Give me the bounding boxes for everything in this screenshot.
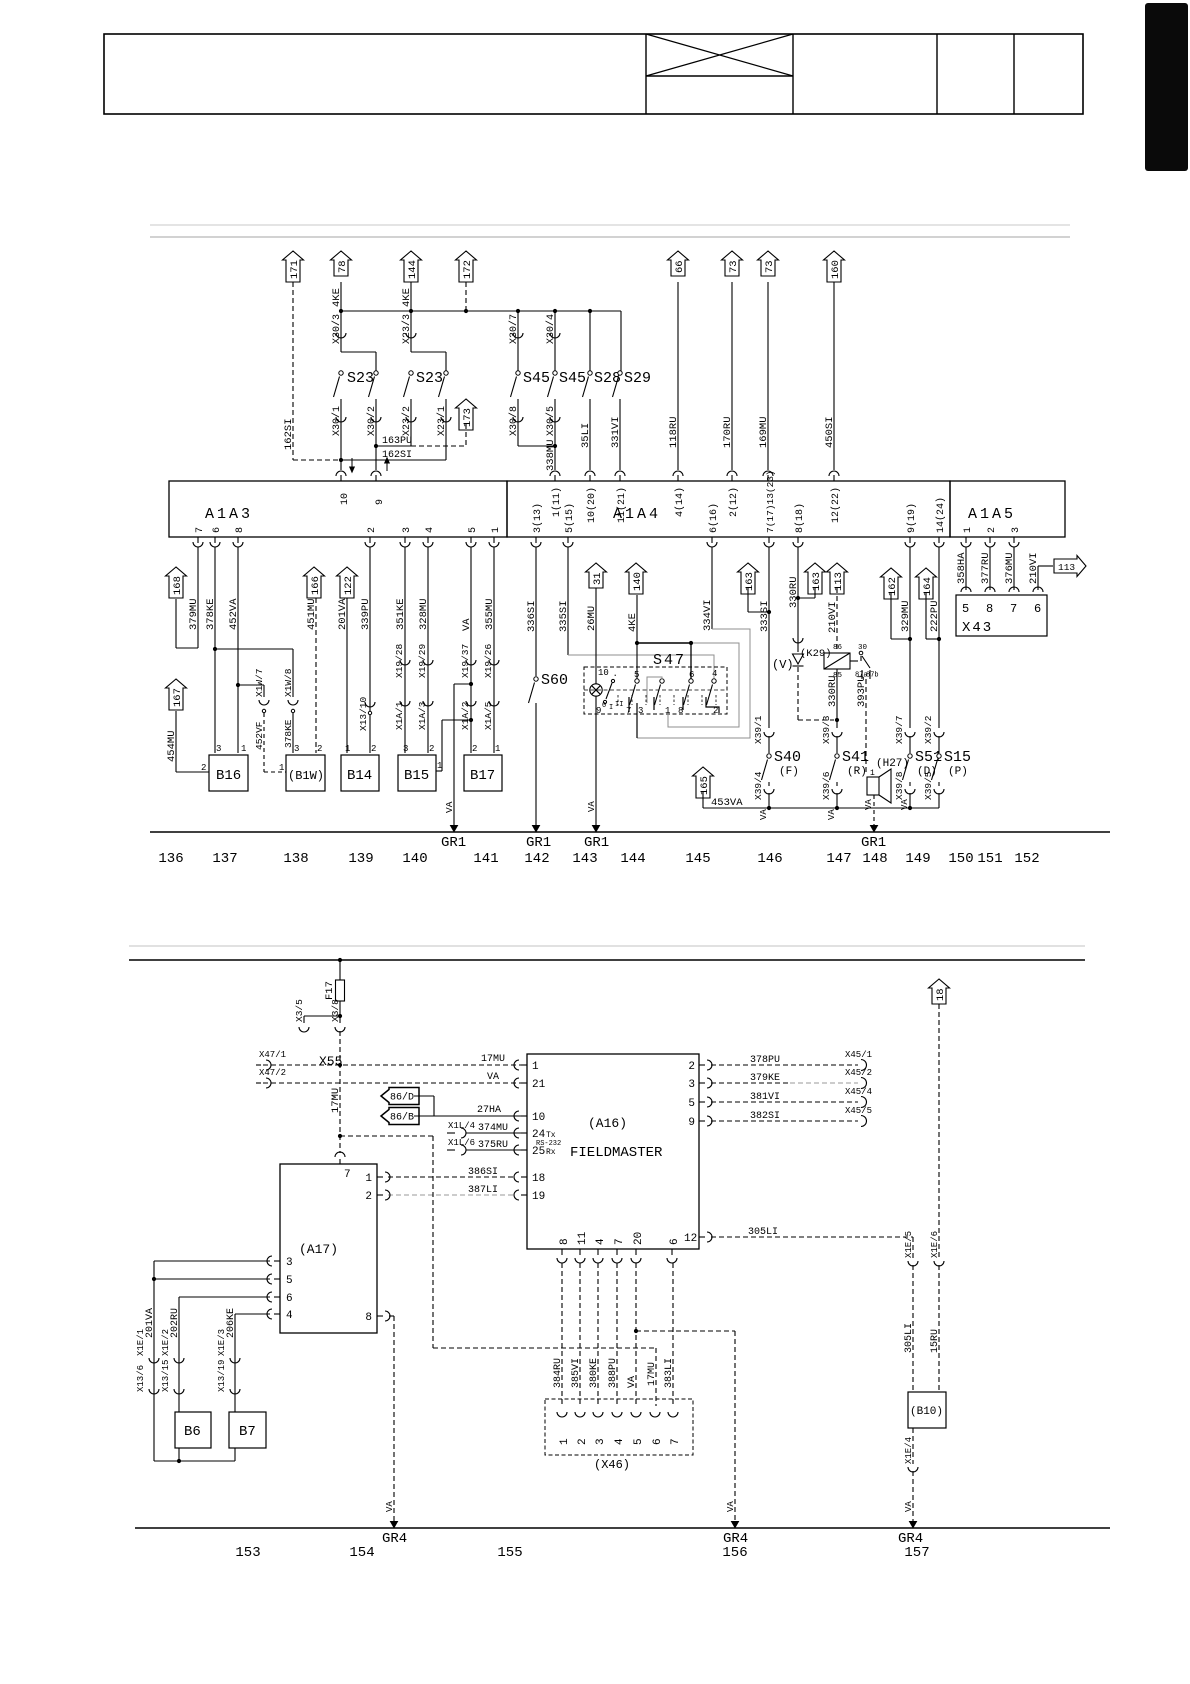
svg-text:10: 10 xyxy=(598,668,609,678)
svg-text:171: 171 xyxy=(289,260,301,279)
A1A3 pin 3 xyxy=(404,537,406,543)
svg-text:27HA: 27HA xyxy=(477,1105,501,1116)
svg-text:X19/29: X19/29 xyxy=(417,643,428,678)
svg-text:7: 7 xyxy=(614,1238,626,1245)
svg-text:II: II xyxy=(615,701,623,709)
wire 334VI routing xyxy=(711,547,713,629)
svg-text:3: 3 xyxy=(402,527,413,533)
svg-text:152: 152 xyxy=(1014,851,1039,867)
svg-text:1(11): 1(11) xyxy=(551,487,563,517)
wire X1E/6 column xyxy=(938,1004,940,1258)
svg-text:157: 157 xyxy=(904,1545,929,1561)
switch S28 xyxy=(588,371,592,375)
svg-text:1: 1 xyxy=(491,527,502,533)
A1A5 pin 2 xyxy=(989,537,991,543)
svg-text:GR1: GR1 xyxy=(584,835,609,851)
svg-text:351KE: 351KE xyxy=(395,598,407,630)
svg-text:379KE: 379KE xyxy=(750,1073,780,1084)
svg-text:169MU: 169MU xyxy=(758,416,770,448)
svg-text:GR4: GR4 xyxy=(382,1531,407,1547)
ECU (A16) FIELDMASTER xyxy=(527,1054,699,1249)
sensor B7 xyxy=(229,1412,266,1448)
svg-text:167: 167 xyxy=(172,688,184,707)
svg-text:X1E/6: X1E/6 xyxy=(930,1231,940,1258)
svg-text:X19/26: X19/26 xyxy=(483,643,494,678)
sensor B16 xyxy=(209,755,248,791)
svg-text:11: 11 xyxy=(577,1231,589,1245)
connector X30/1 xyxy=(340,399,342,460)
svg-text:VA: VA xyxy=(726,1501,736,1512)
svg-text:305LI: 305LI xyxy=(748,1227,778,1238)
svg-text:86/B: 86/B xyxy=(390,1112,414,1124)
svg-text:X23/1: X23/1 xyxy=(436,406,448,436)
svg-text:I: I xyxy=(609,704,613,712)
A1A3 pin 7 xyxy=(197,537,199,543)
svg-text:X39/4: X39/4 xyxy=(753,771,764,800)
svg-text:151: 151 xyxy=(977,851,1002,867)
svg-text:336SI: 336SI xyxy=(526,600,538,632)
switch S45 #2 xyxy=(553,371,557,375)
svg-text:452VA: 452VA xyxy=(228,598,240,630)
wire 351KE xyxy=(404,547,406,753)
section 1 ground bus xyxy=(150,831,1110,833)
flag 31 xyxy=(586,563,607,588)
svg-text:S41: S41 xyxy=(842,749,869,766)
svg-text:X23/3: X23/3 xyxy=(401,314,413,344)
svg-text:A1A3: A1A3 xyxy=(205,506,253,523)
svg-text:166: 166 xyxy=(310,576,322,595)
wire X1E/5 column 305LI xyxy=(912,1237,914,1258)
svg-text:X1A/1: X1A/1 xyxy=(394,701,405,730)
A1A3 pin 10 xyxy=(340,475,342,481)
svg-text:4KE: 4KE xyxy=(627,613,639,632)
svg-text:X1W/7: X1W/7 xyxy=(254,668,265,697)
ground GR4 #2 xyxy=(732,1522,739,1528)
connector X30/7 xyxy=(517,311,519,371)
svg-text:X30/4: X30/4 xyxy=(545,314,557,344)
svg-text:X39/2: X39/2 xyxy=(923,715,934,744)
flag 166 xyxy=(304,567,325,598)
wire 378KE lower xyxy=(292,713,294,753)
svg-text:9(19): 9(19) xyxy=(906,503,918,533)
S47 gray routing xyxy=(668,643,739,727)
svg-text:1: 1 xyxy=(365,1173,372,1185)
wire 4KE right xyxy=(410,282,412,311)
sensor (B1W) xyxy=(286,755,325,791)
A1A3 pin 6 xyxy=(214,537,216,543)
svg-text:X19/37: X19/37 xyxy=(460,644,471,678)
svg-text:452VF: 452VF xyxy=(254,721,265,750)
svg-text:X45/1: X45/1 xyxy=(845,1050,872,1060)
connector X19/26 xyxy=(489,660,499,665)
switch S29 xyxy=(618,371,622,375)
svg-text:450SI: 450SI xyxy=(824,416,836,448)
svg-text:160: 160 xyxy=(830,260,842,279)
svg-text:331VI: 331VI xyxy=(610,416,622,448)
svg-text:1: 1 xyxy=(279,763,284,773)
svg-text:8(18): 8(18) xyxy=(794,503,806,533)
svg-text:378KE: 378KE xyxy=(205,598,217,630)
svg-text:1: 1 xyxy=(532,1061,539,1073)
svg-text:386SI: 386SI xyxy=(468,1167,498,1178)
control unit A1A5 xyxy=(950,481,1065,537)
svg-text:334VI: 334VI xyxy=(702,599,714,631)
wire 118RU xyxy=(677,282,679,470)
svg-text:1: 1 xyxy=(559,1438,571,1445)
svg-text:142: 142 xyxy=(524,851,549,867)
svg-text:1: 1 xyxy=(345,744,350,754)
svg-text:147: 147 xyxy=(826,851,851,867)
svg-text:X39/1: X39/1 xyxy=(753,715,764,744)
wire 4KE left xyxy=(340,282,342,311)
svg-text:X30/3: X30/3 xyxy=(331,314,343,344)
fuse F17 xyxy=(339,960,341,980)
svg-text:Tx: Tx xyxy=(546,1131,556,1140)
A1A4 top pin 10(20) xyxy=(589,475,591,481)
wire 35LI xyxy=(589,399,591,470)
svg-text:384RU: 384RU xyxy=(553,1358,564,1388)
wire 162SI dashed from flag 171 xyxy=(292,282,294,460)
connector X30/4 xyxy=(554,311,556,371)
svg-text:X39/6: X39/6 xyxy=(821,771,832,800)
wire to S28 xyxy=(589,311,591,371)
svg-text:3: 3 xyxy=(216,744,221,754)
wire 329MU xyxy=(909,547,911,728)
svg-text:X30/5: X30/5 xyxy=(545,406,557,436)
svg-text:17MU: 17MU xyxy=(481,1054,505,1065)
svg-text:X1L/4: X1L/4 xyxy=(448,1121,475,1131)
svg-text:454MU: 454MU xyxy=(166,730,178,762)
svg-text:30: 30 xyxy=(858,644,868,652)
svg-text:149: 149 xyxy=(905,851,930,867)
ground GR1 #1 xyxy=(451,826,458,832)
flag 113 vertical xyxy=(827,563,848,594)
svg-text:383LI: 383LI xyxy=(664,1358,675,1388)
svg-text:F17: F17 xyxy=(324,981,336,1000)
wire 169MU xyxy=(767,282,769,470)
svg-text:X13/19: X13/19 xyxy=(217,1360,227,1392)
svg-text:155: 155 xyxy=(497,1545,522,1561)
svg-text:393PU: 393PU xyxy=(856,675,868,707)
A1A3 pin 8 xyxy=(237,537,239,543)
svg-text:S15: S15 xyxy=(944,749,971,766)
svg-text:381VI: 381VI xyxy=(750,1092,780,1103)
svg-text:(B10): (B10) xyxy=(910,1406,943,1418)
A16 bottom pins xyxy=(561,1249,563,1255)
S47 position row dashed xyxy=(584,689,727,691)
X45 connectors xyxy=(861,1060,867,1071)
svg-text:2: 2 xyxy=(472,744,477,754)
wire 386SI xyxy=(388,1176,515,1178)
svg-text:VA: VA xyxy=(759,809,769,820)
svg-text:(X46): (X46) xyxy=(594,1458,630,1472)
svg-text:144: 144 xyxy=(620,851,645,867)
svg-text:X1L/6: X1L/6 xyxy=(448,1138,475,1148)
wire 331VI xyxy=(619,399,621,470)
svg-text:GR1: GR1 xyxy=(441,835,466,851)
4KE feed bus xyxy=(341,310,621,312)
flag 165 xyxy=(693,767,714,798)
svg-text:376MU: 376MU xyxy=(1004,552,1016,584)
A16 pin 12 xyxy=(699,1236,705,1238)
flag 86/B xyxy=(381,1108,419,1125)
svg-text:X1E/5: X1E/5 xyxy=(904,1231,914,1258)
svg-text:GR1: GR1 xyxy=(526,835,551,851)
svg-text:136: 136 xyxy=(158,851,183,867)
wire 379MU xyxy=(197,547,199,648)
flag 172 xyxy=(456,251,477,282)
svg-text:7(17)13(23): 7(17)13(23) xyxy=(765,470,776,533)
svg-text:330RU: 330RU xyxy=(827,675,839,707)
sensor B17 xyxy=(464,755,502,791)
branch to X1W/8 xyxy=(215,648,293,650)
svg-text:170RU: 170RU xyxy=(722,416,734,448)
controller (A17) xyxy=(280,1164,377,1333)
flag 78 xyxy=(331,251,352,276)
svg-text:(K29): (K29) xyxy=(800,648,832,660)
svg-text:2: 2 xyxy=(429,744,434,754)
connector X23/3 xyxy=(410,311,412,352)
svg-text:X30/7: X30/7 xyxy=(508,314,520,344)
svg-text:377RU: 377RU xyxy=(980,552,992,584)
svg-text:14(24): 14(24) xyxy=(935,497,947,533)
svg-text:12: 12 xyxy=(684,1233,697,1245)
A1A3 pin 1 xyxy=(493,537,495,543)
svg-text:X39/8: X39/8 xyxy=(894,771,905,800)
svg-text:18: 18 xyxy=(935,988,947,1001)
connector X13/10 xyxy=(365,702,375,707)
arrow down at pin 10 xyxy=(351,458,353,471)
svg-text:S45: S45 xyxy=(523,370,550,387)
connector X23/2 xyxy=(410,399,412,446)
connector X19/29 xyxy=(423,660,433,665)
svg-text:113: 113 xyxy=(1058,562,1075,573)
svg-text:S40: S40 xyxy=(774,749,801,766)
svg-text:5: 5 xyxy=(962,602,969,616)
wire 338MU xyxy=(518,445,555,447)
svg-text:X1E/4: X1E/4 xyxy=(904,1437,914,1464)
svg-text:3(13): 3(13) xyxy=(532,503,544,533)
ground GR1 #4 xyxy=(871,826,878,832)
svg-text:143: 143 xyxy=(572,851,597,867)
svg-text:163: 163 xyxy=(811,572,823,591)
A1A4 bottom pin 5(15) xyxy=(567,537,569,543)
A1A3 pin 2 xyxy=(369,537,371,543)
A1A4 top pin 7(17)13(23) xyxy=(767,475,769,481)
svg-text:VA: VA xyxy=(827,809,837,820)
section 2 ground bus xyxy=(135,1527,1110,1529)
wire 454MU xyxy=(175,711,177,772)
svg-text:3: 3 xyxy=(1011,527,1022,533)
svg-text:X13/15: X13/15 xyxy=(161,1360,171,1392)
svg-text:201VA: 201VA xyxy=(337,598,349,630)
A17 left pins xyxy=(274,1260,280,1262)
A1A3 pin 4 xyxy=(427,537,429,543)
svg-text:S60: S60 xyxy=(541,672,568,689)
svg-text:1: 1 xyxy=(437,761,442,771)
svg-text:8: 8 xyxy=(235,527,246,533)
svg-text:2: 2 xyxy=(317,744,322,754)
svg-text:150: 150 xyxy=(948,851,973,867)
A1A4 bottom pin 6(16) xyxy=(711,537,713,543)
svg-text:X30/2: X30/2 xyxy=(366,406,378,436)
wire 453VA bus xyxy=(703,807,939,809)
wire 355MU xyxy=(493,547,495,753)
svg-text:S47: S47 xyxy=(653,652,686,669)
svg-text:GR1: GR1 xyxy=(861,835,886,851)
svg-text:4: 4 xyxy=(614,1438,626,1445)
control unit A1A3 xyxy=(169,481,507,537)
sensor B15 xyxy=(398,755,436,791)
svg-text:153: 153 xyxy=(235,1545,260,1561)
svg-text:6: 6 xyxy=(689,670,694,680)
svg-text:8: 8 xyxy=(986,602,993,616)
svg-text:139: 139 xyxy=(348,851,373,867)
wire 305LI xyxy=(711,1236,913,1238)
connector X1A/5 xyxy=(489,701,499,706)
S47 poles and blades xyxy=(635,679,639,683)
wire 393PU dashed xyxy=(865,679,867,772)
svg-text:146: 146 xyxy=(757,851,782,867)
svg-text:2: 2 xyxy=(367,527,378,533)
wire 378KE xyxy=(214,547,216,753)
svg-text:(A17): (A17) xyxy=(299,1242,338,1257)
svg-text:2: 2 xyxy=(365,1191,372,1203)
svg-text:S29: S29 xyxy=(624,370,651,387)
section 2 supply line xyxy=(129,959,1085,961)
svg-text:10: 10 xyxy=(340,493,351,505)
dashed VA to GR4 xyxy=(636,1330,735,1332)
A16 left pins xyxy=(521,1064,527,1066)
wire net pins 3+5 left xyxy=(154,1260,270,1262)
ground GR1 #2 xyxy=(533,826,540,832)
svg-text:5: 5 xyxy=(633,1438,645,1445)
svg-text:2: 2 xyxy=(987,527,998,533)
svg-text:S23: S23 xyxy=(347,370,374,387)
svg-text:6: 6 xyxy=(212,527,223,533)
A1A4 bottom pin 14(24) xyxy=(938,537,940,543)
svg-text:156: 156 xyxy=(722,1545,747,1561)
svg-text:333SI: 333SI xyxy=(759,600,771,632)
svg-text:X1E/1: X1E/1 xyxy=(136,1329,146,1356)
wire to B16 pin 1 xyxy=(237,685,239,753)
svg-text:(B1W): (B1W) xyxy=(288,769,324,783)
connector X43 xyxy=(961,587,971,592)
svg-text:10(20): 10(20) xyxy=(586,487,598,523)
switch S23 #2 xyxy=(411,351,446,353)
svg-text:VA: VA xyxy=(904,1501,914,1512)
A1A4 top pin 2(12) xyxy=(731,475,733,481)
svg-text:(F): (F) xyxy=(779,766,799,778)
X46 wire columns xyxy=(561,1263,563,1406)
A17 pin 7 top xyxy=(339,1159,341,1164)
svg-text:328MU: 328MU xyxy=(418,598,430,630)
svg-text:5: 5 xyxy=(286,1275,293,1287)
svg-text:(P): (P) xyxy=(948,766,968,778)
svg-text:141: 141 xyxy=(473,851,498,867)
svg-text:163: 163 xyxy=(744,572,756,591)
flag 163 #1 xyxy=(738,563,759,594)
svg-text:X13/10: X13/10 xyxy=(358,696,369,731)
svg-text:137: 137 xyxy=(212,851,237,867)
flag 164 xyxy=(916,568,937,599)
svg-text:378KE: 378KE xyxy=(283,719,294,748)
dashed wire below diode xyxy=(797,667,799,720)
svg-text:X1W/8: X1W/8 xyxy=(283,668,294,697)
switch box S47 xyxy=(584,667,727,714)
svg-text:B6: B6 xyxy=(184,1424,201,1440)
svg-text:1: 1 xyxy=(963,527,974,533)
svg-text:140: 140 xyxy=(402,851,427,867)
wire 202RU column xyxy=(179,1296,270,1298)
svg-text:X3/5: X3/5 xyxy=(294,999,305,1022)
svg-text:X1A/5: X1A/5 xyxy=(483,701,494,730)
sensor (B10) xyxy=(908,1392,946,1428)
svg-text:VA: VA xyxy=(385,1501,395,1512)
wire 206KE column xyxy=(235,1313,270,1315)
connector X30/2 xyxy=(375,399,377,446)
black side tab xyxy=(1145,3,1188,171)
svg-text:173: 173 xyxy=(462,408,474,427)
svg-text:7: 7 xyxy=(195,527,206,533)
svg-text:330RU: 330RU xyxy=(788,576,800,608)
svg-text:168: 168 xyxy=(172,576,184,595)
svg-text:VA: VA xyxy=(487,1072,499,1083)
svg-text:375RU: 375RU xyxy=(478,1140,508,1151)
svg-text:338MU: 338MU xyxy=(545,439,557,471)
svg-text:335SI: 335SI xyxy=(558,600,570,632)
connector inline 330RU xyxy=(793,638,803,643)
svg-text:10: 10 xyxy=(532,1112,545,1124)
wire 374MU xyxy=(466,1132,523,1134)
A16 right pins 2 3 5 9 xyxy=(699,1064,705,1066)
svg-text:145: 145 xyxy=(685,851,710,867)
wire 222PU xyxy=(938,547,940,728)
wire 170RU xyxy=(731,282,733,470)
connector X30/3 xyxy=(340,311,342,352)
svg-text:11(21): 11(21) xyxy=(616,487,628,523)
svg-text:25: 25 xyxy=(532,1146,545,1158)
connector X19/37 xyxy=(466,660,476,665)
wires to X45 xyxy=(711,1064,858,1066)
svg-text:148: 148 xyxy=(862,851,887,867)
A1A4 bottom pin 3(13) xyxy=(535,537,537,543)
svg-text:15RU: 15RU xyxy=(930,1329,941,1353)
svg-text:86/D: 86/D xyxy=(390,1092,414,1104)
svg-text:6: 6 xyxy=(1034,602,1041,616)
flag 73 b xyxy=(758,251,779,276)
wires to A1A3 pins 10 and 9 xyxy=(340,460,342,470)
sensor B14 xyxy=(341,755,379,791)
svg-text:B16: B16 xyxy=(216,768,241,784)
svg-text:18: 18 xyxy=(532,1173,545,1185)
svg-text:138: 138 xyxy=(283,851,308,867)
svg-text:4: 4 xyxy=(286,1310,293,1322)
svg-text:3: 3 xyxy=(688,1079,695,1091)
control unit A1A4 xyxy=(507,481,950,537)
A1A3 pin 9 xyxy=(375,475,377,481)
switch S40 xyxy=(764,732,774,737)
svg-text:X1A/3: X1A/3 xyxy=(417,701,428,730)
connector X19/28 xyxy=(400,660,410,665)
wire 450SI xyxy=(833,282,835,470)
svg-text:(A16): (A16) xyxy=(588,1116,627,1131)
svg-text:118RU: 118RU xyxy=(668,416,680,448)
svg-text:374MU: 374MU xyxy=(478,1123,508,1134)
section 2 top rule line gray xyxy=(129,945,1085,947)
svg-text:388PU: 388PU xyxy=(608,1358,619,1388)
svg-text:A1A5: A1A5 xyxy=(968,506,1016,523)
